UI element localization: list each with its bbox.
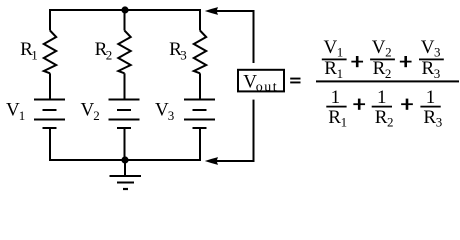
wire branch2 top bbox=[124, 10, 126, 31]
battery V1 bbox=[34, 100, 65, 129]
svg-text:R: R bbox=[422, 58, 435, 79]
formula denominator 1/R1 bbox=[326, 87, 347, 130]
label R2 bbox=[95, 39, 113, 62]
arrow into top bus bbox=[205, 7, 218, 15]
formula denominator 1/R3 bbox=[420, 87, 442, 130]
battery V3 bbox=[184, 100, 215, 129]
wire bottom bus (50,160)-(200,160) bbox=[49, 159, 201, 161]
svg-text:2: 2 bbox=[387, 115, 394, 130]
svg-text:R: R bbox=[324, 58, 337, 79]
formula main fraction bar bbox=[316, 80, 459, 82]
equals sign bbox=[290, 78, 300, 84]
box Vout bbox=[238, 70, 284, 92]
wire V1 to bottom bus bbox=[49, 128, 51, 161]
wire V3 to bottom bus bbox=[199, 128, 201, 161]
label V2 bbox=[81, 100, 100, 123]
svg-text:3: 3 bbox=[434, 44, 441, 59]
node junction dot top (125,10) bbox=[121, 6, 128, 13]
arrow into bottom bus bbox=[205, 157, 218, 165]
svg-text:1: 1 bbox=[377, 87, 387, 108]
wire feedback bottom horizontal bbox=[215, 160, 254, 162]
label V1 bbox=[6, 100, 25, 123]
svg-text:1: 1 bbox=[337, 44, 344, 59]
svg-text:3: 3 bbox=[434, 66, 441, 81]
resistor R1 bbox=[44, 31, 56, 74]
svg-text:1: 1 bbox=[31, 48, 38, 63]
resistor R3 bbox=[194, 31, 206, 74]
formula numerator V3/R3 bbox=[419, 37, 444, 81]
wire R1 to V1 bbox=[49, 73, 51, 99]
battery V2 bbox=[109, 100, 140, 129]
wire R2 to V2 bbox=[124, 73, 126, 99]
ground bbox=[110, 160, 142, 189]
svg-text:2: 2 bbox=[106, 48, 113, 63]
svg-text:V: V bbox=[324, 37, 338, 58]
svg-text:1: 1 bbox=[19, 108, 26, 123]
label R3 bbox=[169, 39, 187, 62]
formula plus 3 bbox=[353, 99, 365, 110]
wire branch3 top bbox=[199, 9, 201, 31]
wire top bus (50,10)-(200,10) bbox=[49, 9, 201, 11]
node junction dot bottom (125,160) bbox=[121, 156, 128, 163]
formula plus 4 bbox=[401, 99, 413, 110]
svg-text:V: V bbox=[421, 37, 435, 58]
svg-text:3: 3 bbox=[168, 108, 175, 123]
formula numerator V2/R2 bbox=[370, 37, 395, 81]
svg-text:2: 2 bbox=[385, 66, 392, 81]
formula denominator 1/R2 bbox=[372, 87, 394, 130]
wire branch1 top bbox=[49, 9, 51, 31]
wire feedback top horizontal bbox=[215, 10, 254, 12]
wire feedback right vertical lower bbox=[253, 100, 255, 162]
wire feedback right vertical upper bbox=[253, 10, 255, 63]
svg-text:out: out bbox=[256, 80, 277, 95]
label R1 bbox=[20, 39, 38, 62]
svg-text:1: 1 bbox=[426, 87, 436, 108]
formula plus 2 bbox=[400, 56, 412, 67]
svg-text:1: 1 bbox=[341, 115, 348, 130]
svg-text:R: R bbox=[375, 107, 388, 128]
label Vout bbox=[243, 71, 277, 95]
wire R3 to V3 bbox=[199, 73, 201, 99]
wire V2 to bottom bus bbox=[124, 128, 126, 161]
svg-text:1: 1 bbox=[337, 66, 344, 81]
svg-text:R: R bbox=[373, 58, 386, 79]
formula plus 1 bbox=[351, 56, 363, 67]
svg-text:3: 3 bbox=[180, 48, 187, 63]
svg-text:R: R bbox=[423, 107, 436, 128]
label V3 bbox=[155, 100, 174, 123]
svg-text:1: 1 bbox=[331, 87, 341, 108]
svg-text:V: V bbox=[372, 37, 386, 58]
svg-text:2: 2 bbox=[385, 44, 392, 59]
svg-text:R: R bbox=[328, 107, 341, 128]
formula numerator V1/R1 bbox=[322, 37, 347, 81]
svg-text:2: 2 bbox=[93, 108, 100, 123]
svg-text:3: 3 bbox=[436, 115, 443, 130]
resistor R2 bbox=[118, 31, 130, 74]
